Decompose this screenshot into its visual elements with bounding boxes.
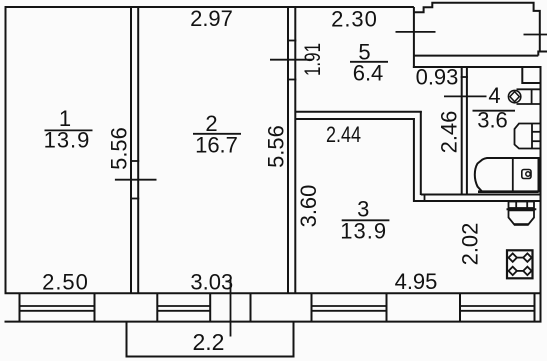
wire bathroom bottom wall top line (421, 194, 542, 196)
wire window2 right frame (209, 293, 211, 321)
svg-text:5.56: 5.56 (107, 127, 132, 170)
wire leader line label 4 (444, 95, 487, 97)
svg-text:16.7: 16.7 (195, 133, 238, 158)
svg-text:3.6: 3.6 (477, 108, 508, 133)
wire top balcony left wall (413, 7, 415, 68)
svg-text:2.44: 2.44 (326, 122, 361, 147)
wire window3 glazing (312, 305, 387, 307)
fixture small sink with tap right of label 4 (508, 89, 540, 104)
svg-text:6.4: 6.4 (353, 61, 384, 86)
svg-text:4.95: 4.95 (395, 269, 438, 294)
svg-text:2.46: 2.46 (437, 111, 462, 154)
wire window1 left frame (19, 293, 21, 321)
wire bottom wall top line (5, 292, 542, 294)
wire window1 right frame (94, 293, 96, 321)
fixture toilet (507, 202, 537, 225)
wire bathroom bottom wall bottom line (414, 200, 542, 202)
svg-text:13.9: 13.9 (340, 219, 387, 244)
node top balcony stepped outline (414, 3, 540, 52)
wire bathroom left wall line B (466, 67, 468, 195)
svg-text:3.03: 3.03 (190, 270, 233, 295)
wire rung upper on room2-room3 wall (287, 40, 296, 42)
wire bottom wall bottom line (5, 321, 542, 323)
svg-text:2.97: 2.97 (190, 6, 233, 31)
fixture gas stove with four burners (507, 250, 533, 278)
fixture washbasin in bathroom (515, 124, 541, 149)
wire window4 right frame (534, 293, 536, 321)
wire dimension tick 1.91 (270, 59, 312, 61)
wire rung in bathroom bottom wall (424, 195, 426, 202)
wire rung lower on room1-room2 wall (130, 198, 139, 200)
fixture bathtub (475, 158, 539, 192)
wire dimension tick at balcony right (524, 34, 547, 36)
wire window4 left frame (459, 293, 461, 321)
wire top exterior wall (5, 6, 414, 8)
wire leader line 2.2 (230, 279, 232, 337)
wire room3 top wall outer line (295, 111, 422, 113)
wire right exterior wall (540, 66, 542, 322)
wire balcony door right frame (250, 293, 252, 321)
wire wall room2-room3 line A (287, 8, 289, 293)
wire dimension tick 2.30 at balcony left (396, 31, 436, 33)
wire shaft wall inner vertical (413, 118, 415, 202)
wire room3 top wall inner line (295, 118, 415, 120)
svg-text:3.60: 3.60 (296, 185, 321, 228)
wire window4 glazing (460, 305, 535, 307)
wire window2 left frame (156, 293, 158, 321)
svg-text:5.56: 5.56 (263, 125, 288, 168)
svg-text:2.30: 2.30 (331, 7, 378, 32)
svg-text:1.91: 1.91 (300, 43, 325, 76)
svg-text:2.02: 2.02 (458, 223, 483, 266)
wire window2 glazing (157, 305, 210, 307)
wire top balcony inner bottom (414, 55, 538, 57)
wire bathroom left wall line A (461, 67, 463, 195)
svg-text:2.2: 2.2 (193, 329, 225, 355)
wire top balcony bottom right jog to edge (538, 52, 547, 56)
svg-text:2.50: 2.50 (42, 270, 89, 295)
wire wall room1-room2 line B (137, 8, 139, 293)
wire left exterior wall (5, 6, 7, 294)
wire wall below top balcony (413, 66, 542, 68)
wire window3 left frame (311, 293, 313, 321)
wire window3 right frame (386, 293, 388, 321)
wire dimension tick 5.56 room1 (115, 179, 157, 181)
wire wall room2-room3 line B (294, 8, 296, 293)
node bottom balcony outline (127, 322, 294, 357)
wire rung lower on room2-room3 wall (287, 79, 296, 81)
wire rung on bathroom left wall (461, 76, 468, 78)
node vent box in bathroom corner (522, 68, 540, 84)
svg-text:4: 4 (488, 83, 500, 108)
wire rung upper on room1-room2 wall (130, 160, 139, 162)
wire shaft wall outer vertical (420, 111, 422, 195)
wire window1 glazing (20, 305, 95, 307)
svg-text:13.9: 13.9 (44, 128, 91, 153)
wire wall room1-room2 line A (130, 8, 132, 293)
svg-text:0.93: 0.93 (416, 65, 459, 90)
